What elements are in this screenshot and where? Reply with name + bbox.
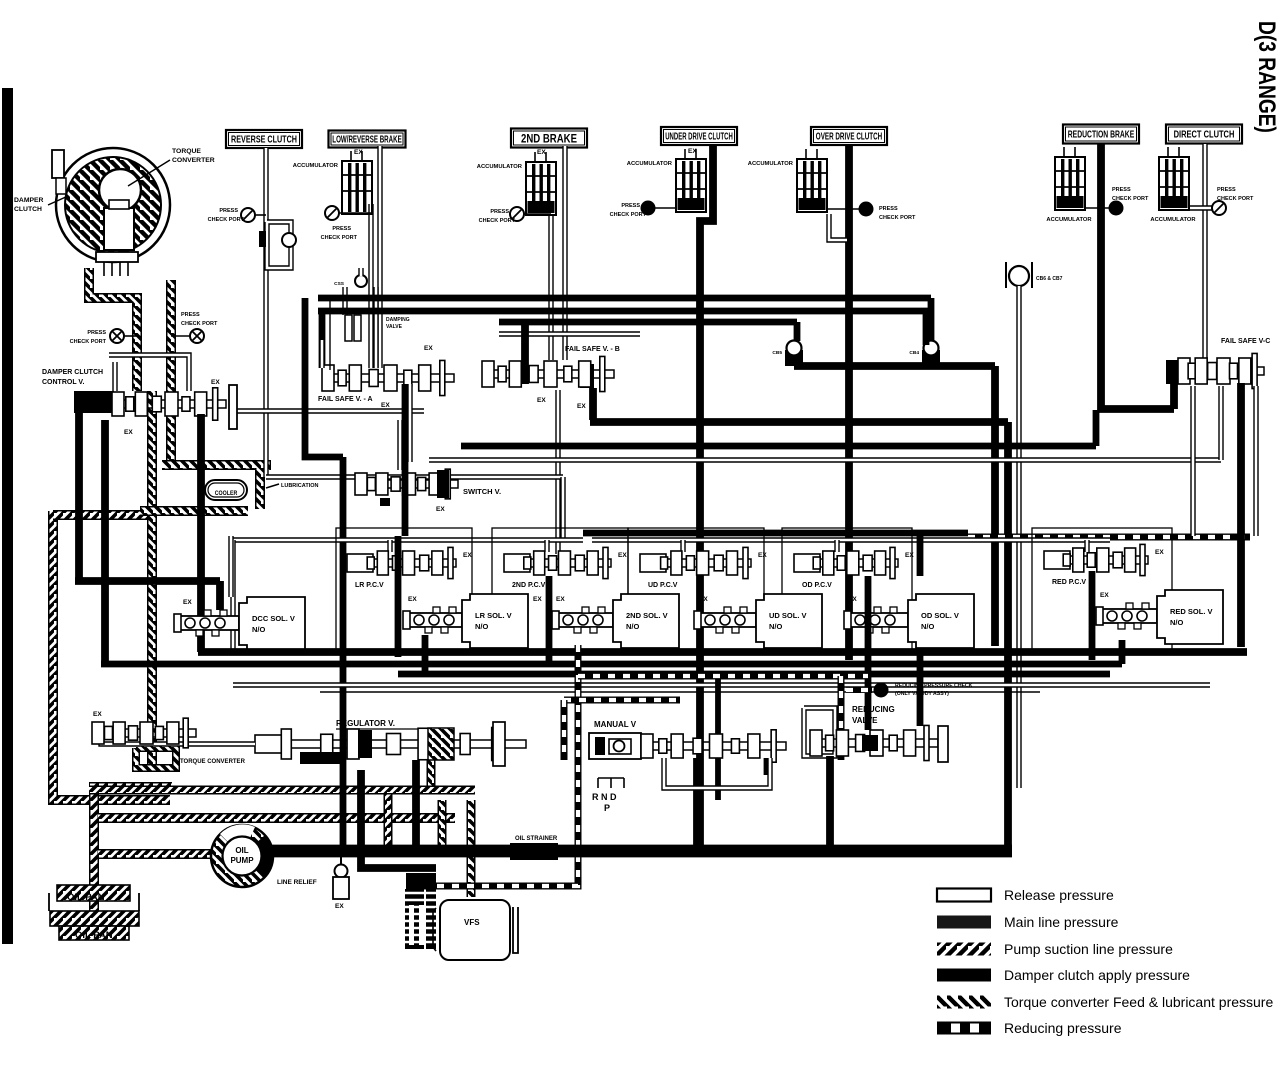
- svg-text:2ND SOL. V: 2ND SOL. V: [626, 611, 668, 620]
- svg-text:N/O: N/O: [475, 622, 489, 631]
- svg-text:PRESS: PRESS: [219, 208, 238, 214]
- svg-text:PRESS: PRESS: [1112, 187, 1131, 193]
- svg-text:MANUAL V: MANUAL V: [594, 720, 637, 729]
- svg-text:ACCUMULATOR: ACCUMULATOR: [293, 163, 339, 169]
- svg-text:EX: EX: [335, 903, 344, 910]
- svg-text:D(3 RANGE): D(3 RANGE): [1253, 21, 1280, 133]
- svg-text:DAMPER CLUTCH: DAMPER CLUTCH: [42, 369, 103, 376]
- svg-text:EX: EX: [848, 596, 857, 603]
- svg-text:CHECK PORT: CHECK PORT: [208, 217, 245, 223]
- svg-text:CSS: CSS: [334, 281, 345, 287]
- svg-text:PRESS: PRESS: [332, 226, 351, 232]
- svg-text:Torque converter Feed & lubric: Torque converter Feed & lubricant pressu…: [1004, 994, 1273, 1010]
- svg-text:N/O: N/O: [921, 622, 935, 631]
- svg-text:UD SOL. V: UD SOL. V: [769, 611, 807, 620]
- svg-text:PRESS: PRESS: [181, 312, 200, 318]
- svg-text:Reducing pressure: Reducing pressure: [1004, 1020, 1122, 1036]
- svg-text:REDUCING PRESSURE CHECK: REDUCING PRESSURE CHECK: [895, 683, 973, 689]
- svg-text:CB5: CB5: [772, 350, 782, 356]
- svg-text:DAMPING: DAMPING: [386, 317, 410, 323]
- svg-text:VFS: VFS: [464, 918, 480, 927]
- svg-text:CB4: CB4: [909, 350, 919, 356]
- svg-text:EX: EX: [537, 397, 546, 404]
- svg-text:EX: EX: [183, 599, 192, 606]
- svg-text:Release pressure: Release pressure: [1004, 887, 1114, 903]
- svg-text:EX: EX: [408, 596, 417, 603]
- svg-text:EX: EX: [556, 596, 565, 603]
- svg-text:ACCUMULATOR: ACCUMULATOR: [477, 164, 523, 170]
- svg-text:LR P.C.V: LR P.C.V: [355, 582, 384, 589]
- svg-text:EX: EX: [537, 149, 546, 156]
- svg-text:EX: EX: [463, 552, 472, 559]
- svg-text:PRESS: PRESS: [879, 206, 898, 212]
- svg-text:Damper clutch apply pressure: Damper clutch apply pressure: [1004, 967, 1190, 983]
- svg-text:RED P.C.V: RED P.C.V: [1052, 579, 1086, 586]
- svg-text:REGULATOR V.: REGULATOR V.: [336, 719, 395, 728]
- svg-text:CHECK PORT: CHECK PORT: [1112, 196, 1149, 202]
- svg-text:FAIL SAFE V-C: FAIL SAFE V-C: [1221, 338, 1270, 345]
- svg-text:TORQUE: TORQUE: [172, 148, 201, 155]
- svg-text:OD SOL. V: OD SOL. V: [921, 611, 959, 620]
- svg-text:LR SOL. V: LR SOL. V: [475, 611, 512, 620]
- svg-text:N/O: N/O: [1170, 618, 1184, 627]
- svg-text:TORQUE CONVERTER: TORQUE CONVERTER: [180, 759, 246, 765]
- svg-text:FAIL SAFE V. - B: FAIL SAFE V. - B: [565, 346, 620, 353]
- svg-text:UD P.C.V: UD P.C.V: [648, 582, 678, 589]
- svg-text:CLUTCH: CLUTCH: [14, 206, 42, 213]
- svg-text:Pump suction line pressure: Pump suction line pressure: [1004, 941, 1173, 957]
- svg-text:PRESS: PRESS: [621, 203, 640, 209]
- svg-text:EX: EX: [124, 429, 133, 436]
- svg-text:CHECK PORT: CHECK PORT: [479, 218, 516, 224]
- svg-text:OIL PAN: OIL PAN: [67, 892, 105, 903]
- svg-text:OIL STRAINER: OIL STRAINER: [515, 836, 558, 842]
- svg-text:ACCUMULATOR: ACCUMULATOR: [627, 161, 673, 167]
- svg-text:LOW/REVERSE BRAKE: LOW/REVERSE BRAKE: [332, 133, 402, 145]
- svg-text:CHECK PORT: CHECK PORT: [70, 339, 107, 345]
- svg-text:ACCUMULATOR: ACCUMULATOR: [1150, 217, 1196, 223]
- svg-text:RED SOL. V: RED SOL. V: [1170, 607, 1213, 616]
- svg-text:PRESS: PRESS: [87, 330, 106, 336]
- svg-text:P: P: [604, 803, 610, 813]
- svg-text:PUMP: PUMP: [230, 856, 254, 865]
- svg-text:N/O: N/O: [252, 625, 266, 634]
- svg-text:EX: EX: [436, 506, 445, 513]
- svg-text:N/O: N/O: [769, 622, 783, 631]
- svg-text:2ND BRAKE: 2ND BRAKE: [521, 132, 577, 145]
- svg-text:DAMPER: DAMPER: [14, 197, 44, 204]
- svg-text:VALVE: VALVE: [852, 716, 878, 725]
- svg-text:EX: EX: [618, 552, 627, 559]
- svg-text:CHECK PORT: CHECK PORT: [610, 212, 647, 218]
- svg-text:PRESS: PRESS: [1217, 187, 1236, 193]
- svg-text:EX: EX: [905, 552, 914, 559]
- svg-text:EX: EX: [758, 552, 767, 559]
- svg-text:EX: EX: [1155, 549, 1164, 556]
- svg-text:OD P.C.V: OD P.C.V: [802, 582, 832, 589]
- svg-text:UNDER DRIVE CLUTCH: UNDER DRIVE CLUTCH: [665, 131, 733, 142]
- svg-text:CONVERTER: CONVERTER: [172, 157, 215, 164]
- svg-text:DCC SOL. V: DCC SOL. V: [252, 614, 295, 623]
- svg-text:EX: EX: [381, 402, 390, 409]
- svg-text:OIL: OIL: [235, 846, 248, 855]
- svg-text:R N D: R N D: [592, 792, 617, 802]
- svg-text:EX: EX: [699, 596, 708, 603]
- svg-text:EX: EX: [1100, 592, 1109, 599]
- svg-text:VALVE: VALVE: [386, 324, 403, 330]
- svg-text:CHECK PORT: CHECK PORT: [1217, 196, 1254, 202]
- svg-text:EX: EX: [424, 345, 433, 352]
- svg-text:ACCUMULATOR: ACCUMULATOR: [1046, 217, 1092, 223]
- svg-text:ACCUMULATOR: ACCUMULATOR: [748, 161, 794, 167]
- svg-text:Main line pressure: Main line pressure: [1004, 914, 1119, 930]
- svg-text:N/O: N/O: [626, 622, 640, 631]
- svg-text:EX: EX: [211, 379, 220, 386]
- svg-text:CB6 & CB7: CB6 & CB7: [1036, 276, 1063, 282]
- svg-text:EX: EX: [93, 711, 102, 718]
- svg-text:DIRECT CLUTCH: DIRECT CLUTCH: [1174, 129, 1235, 140]
- svg-text:EX: EX: [577, 403, 586, 410]
- svg-text:LUBRICATION: LUBRICATION: [281, 483, 319, 489]
- svg-text:OIL PAN: OIL PAN: [75, 930, 113, 941]
- svg-text:PRESS: PRESS: [490, 209, 509, 215]
- svg-text:CHECK PORT: CHECK PORT: [879, 215, 916, 221]
- svg-text:REDUCING: REDUCING: [852, 705, 895, 714]
- svg-text:FAIL SAFE V. - A: FAIL SAFE V. - A: [318, 396, 373, 403]
- svg-text:OVER DRIVE CLUTCH: OVER DRIVE CLUTCH: [816, 130, 882, 142]
- svg-text:COOLER: COOLER: [215, 491, 238, 497]
- svg-text:LINE RELIEF: LINE RELIEF: [277, 879, 317, 886]
- svg-text:EX: EX: [533, 596, 542, 603]
- svg-text:REDUCTION BRAKE: REDUCTION BRAKE: [1068, 128, 1135, 140]
- svg-text:CHECK PORT: CHECK PORT: [321, 235, 358, 241]
- svg-text:REVERSE CLUTCH: REVERSE CLUTCH: [231, 133, 297, 144]
- svg-text:2ND P.C.V: 2ND P.C.V: [512, 582, 546, 589]
- svg-text:SWITCH V.: SWITCH V.: [463, 487, 501, 496]
- svg-text:CHECK PORT: CHECK PORT: [181, 321, 218, 327]
- svg-text:CONTROL V.: CONTROL V.: [42, 379, 84, 386]
